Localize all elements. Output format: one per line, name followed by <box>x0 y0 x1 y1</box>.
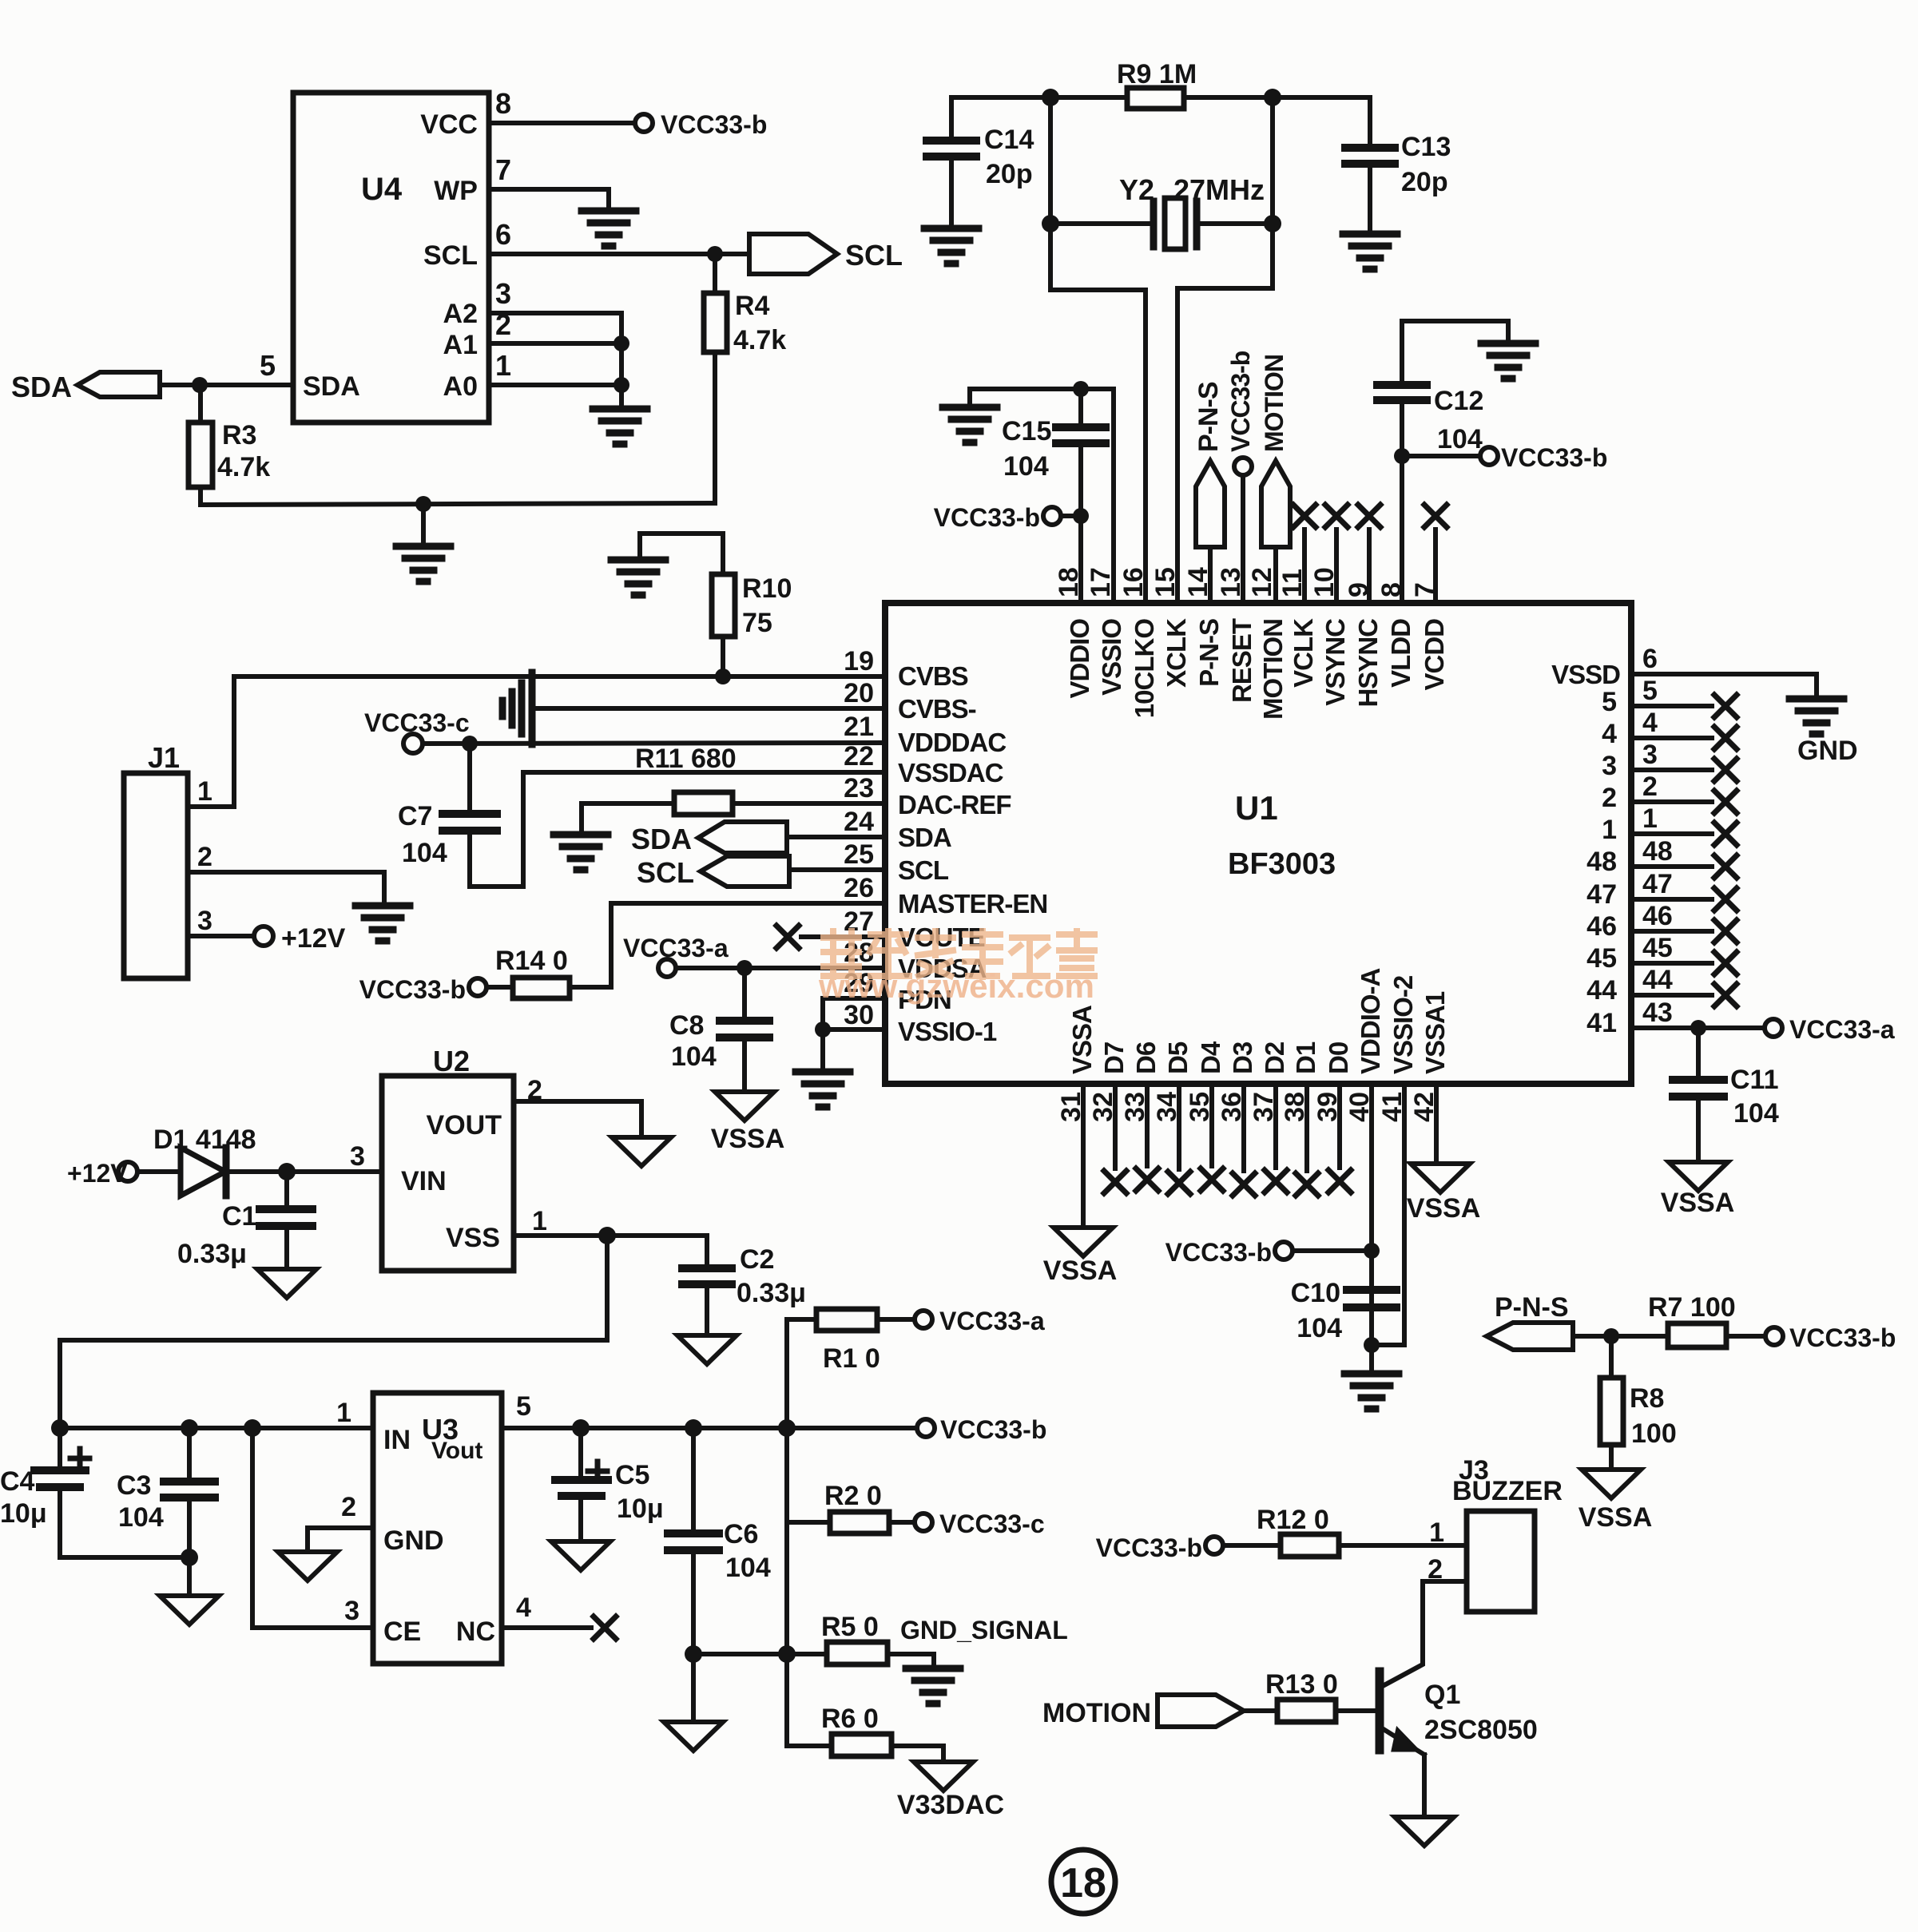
node right of R9 <box>1264 89 1281 106</box>
capacitor C11 <box>1696 1028 1701 1080</box>
svg-text:MASTER-EN: MASTER-EN <box>898 889 1047 918</box>
svg-text:C12: C12 <box>1434 386 1483 416</box>
svg-text:47: 47 <box>1586 879 1617 910</box>
svg-text:4: 4 <box>516 1593 531 1623</box>
crystal circuit top wire <box>951 95 1370 100</box>
wire J3 pin2 to Q1 collector <box>1381 1581 1467 1687</box>
resistor R5 0 <box>827 1642 888 1664</box>
svg-text:BF3003: BF3003 <box>1228 847 1336 881</box>
no-connect X bottom pins 32-39 <box>1115 1084 1340 1171</box>
svg-text:10: 10 <box>1309 567 1340 597</box>
svg-text:6: 6 <box>495 218 511 251</box>
wire crystal loop to pin16 <box>1050 290 1146 603</box>
resistor R4 <box>713 254 717 293</box>
VSSA triangle (R8) <box>1582 1470 1641 1498</box>
svg-text:R13 0: R13 0 <box>1265 1669 1338 1700</box>
svg-text:C8: C8 <box>669 1010 704 1041</box>
U1 bottom inside labels <box>1067 969 1450 1075</box>
svg-text:GND_SIGNAL: GND_SIGNAL <box>900 1616 1068 1644</box>
MOTION arrow (bottom) <box>1158 1695 1244 1727</box>
signal-ground sideways (CVBS-) <box>502 672 532 744</box>
svg-text:9: 9 <box>1344 582 1374 597</box>
ground (C12) <box>1481 343 1535 379</box>
svg-text:R11 680: R11 680 <box>635 744 737 774</box>
svg-text:SCL: SCL <box>637 856 694 889</box>
U1 bottom pin numbers <box>1056 1092 1439 1122</box>
svg-text:C2: C2 <box>740 1244 774 1275</box>
svg-text:VSSIO: VSSIO <box>1097 619 1126 696</box>
MOTION arrow into pin12 <box>1261 461 1290 547</box>
wire U1 pin42 VSSA1 <box>1434 1084 1439 1162</box>
svg-text:WP: WP <box>434 176 478 206</box>
wire U3 CE pin3 from IN rail <box>252 1428 373 1628</box>
svg-text:7: 7 <box>495 153 511 186</box>
wire U4 pin6 SCL <box>489 252 749 256</box>
svg-text:16: 16 <box>1118 567 1149 597</box>
svg-text:HSYNC: HSYNC <box>1353 619 1383 708</box>
svg-text:46: 46 <box>1586 911 1617 942</box>
svg-text:C13: C13 <box>1401 132 1451 162</box>
svg-text:A0: A0 <box>443 371 478 402</box>
ground (R11/DAC-REF) <box>554 835 608 870</box>
svg-text:VCC33-b: VCC33-b <box>1226 351 1255 452</box>
svg-text:VSSA: VSSA <box>1043 1256 1118 1286</box>
svg-text:A2: A2 <box>443 299 478 329</box>
VSSA triangle (C8) <box>715 1092 774 1121</box>
svg-text:D5: D5 <box>1163 1041 1193 1074</box>
svg-text:www.gzweix.com: www.gzweix.com <box>818 967 1094 1005</box>
svg-text:GND: GND <box>1797 736 1858 766</box>
VCC33-b terminal at C10 <box>1364 1243 1380 1259</box>
svg-text:IN: IN <box>383 1425 411 1455</box>
svg-text:5: 5 <box>1642 676 1658 706</box>
crystal Y2 27MHz <box>1048 97 1053 290</box>
wire U1 pin20 CVBS- <box>534 706 885 711</box>
svg-text:Vout: Vout <box>431 1438 482 1464</box>
svg-text:SDA: SDA <box>303 371 360 402</box>
node A0 <box>614 377 629 393</box>
svg-text:R14 0: R14 0 <box>495 946 568 976</box>
svg-text:VCDD: VCDD <box>1420 619 1449 691</box>
svg-text:C14: C14 <box>984 125 1034 155</box>
wire U3 GND pin2 to ground <box>308 1528 373 1550</box>
ground triangle (Q1 emitter) <box>1395 1817 1454 1846</box>
svg-text:VCC33-c: VCC33-c <box>939 1509 1045 1538</box>
ground triangle (C3/C4) <box>160 1596 219 1625</box>
svg-text:0.33μ: 0.33μ <box>177 1239 247 1269</box>
svg-text:SDA: SDA <box>631 823 692 855</box>
svg-text:P-N-S: P-N-S <box>1495 1292 1569 1323</box>
svg-text:C4: C4 <box>0 1466 35 1497</box>
capacitor C2 <box>705 1236 709 1268</box>
SDA arrow to pin24 <box>698 822 787 853</box>
svg-text:R3: R3 <box>222 420 256 450</box>
svg-text:U2: U2 <box>433 1045 470 1077</box>
ground (WP) <box>582 211 636 246</box>
wire U1 pin43 to VCC33-a <box>1631 1026 1764 1030</box>
svg-text:4.7k: 4.7k <box>217 452 270 482</box>
svg-text:14: 14 <box>1183 567 1213 597</box>
svg-text:6: 6 <box>1642 644 1658 674</box>
svg-text:10μ: 10μ <box>617 1494 664 1524</box>
wire crystal loop to pin15 <box>1177 288 1273 603</box>
capacitor C10 <box>1347 1286 1396 1294</box>
svg-text:C11: C11 <box>1730 1065 1779 1095</box>
wire U1 pin31 VSSA <box>1081 1084 1086 1226</box>
svg-text:MOTION: MOTION <box>1260 355 1289 452</box>
svg-text:3: 3 <box>197 906 212 936</box>
SDA input arrow <box>77 372 160 397</box>
svg-text:VDDIO: VDDIO <box>1065 619 1094 699</box>
svg-text:4: 4 <box>1602 719 1617 749</box>
no-connect X pin7 <box>1433 530 1438 603</box>
svg-text:1: 1 <box>336 1398 351 1428</box>
svg-text:MOTION: MOTION <box>1042 1698 1151 1728</box>
page number 18 <box>1051 1850 1115 1914</box>
node crystal left <box>1042 215 1059 232</box>
svg-text:VCC33-b: VCC33-b <box>934 503 1040 532</box>
svg-text:SCL: SCL <box>898 855 949 885</box>
svg-text:22: 22 <box>844 741 874 772</box>
wires U4 A2 A1 A0 <box>489 311 621 315</box>
ground (C10) <box>1344 1374 1399 1409</box>
wire C6 bottom junction to R5 <box>693 1652 827 1656</box>
resistor R7 100 <box>1668 1323 1726 1347</box>
svg-text:5: 5 <box>516 1391 531 1422</box>
ground (R10) <box>611 560 665 595</box>
svg-text:VSSIO-1: VSSIO-1 <box>898 1017 997 1046</box>
capacitor C4 10u electrolytic <box>58 1428 62 1470</box>
svg-text:U1: U1 <box>1235 789 1278 827</box>
svg-text:VSSA: VSSA <box>1407 1193 1481 1224</box>
svg-text:R6 0: R6 0 <box>821 1704 879 1734</box>
svg-text:R7 100: R7 100 <box>1648 1292 1736 1323</box>
svg-text:D6: D6 <box>1131 1041 1161 1074</box>
svg-text:104: 104 <box>402 838 447 868</box>
svg-text:VSSD: VSSD <box>1551 660 1620 689</box>
ground (C15) <box>943 407 997 442</box>
svg-text:104: 104 <box>725 1553 771 1583</box>
U1 top pin numbers <box>1054 567 1440 597</box>
IC U4 (EEPROM) <box>293 93 489 423</box>
VCC33-b terminal at pin13 <box>1234 458 1252 475</box>
wire J1 pin2 to ground <box>188 872 384 905</box>
svg-text:VCC33-b: VCC33-b <box>940 1415 1046 1444</box>
svg-text:U4: U4 <box>361 172 403 207</box>
wire C4 bottom to C3 bottom <box>60 1555 189 1560</box>
IN rail to U3 <box>60 1426 373 1430</box>
IC U1 BF3003 <box>885 603 1631 1084</box>
svg-text:VLDD: VLDD <box>1386 619 1416 688</box>
resistor R13 0 <box>1244 1708 1277 1713</box>
svg-text:VSSA: VSSA <box>711 1124 785 1154</box>
svg-text:104: 104 <box>1437 424 1483 454</box>
wire U2 VSS pin1 <box>514 1233 707 1238</box>
svg-text:VCC33-b: VCC33-b <box>1165 1238 1272 1267</box>
svg-text:4: 4 <box>1642 708 1658 738</box>
P-N-S arrow (bottom right) <box>1487 1323 1573 1350</box>
wire J1 pin3 to +12V <box>188 934 254 938</box>
svg-text:R2 0: R2 0 <box>824 1481 882 1511</box>
svg-text:Y2: Y2 <box>1119 173 1154 206</box>
svg-text:15: 15 <box>1150 567 1181 597</box>
resistor R2 0 <box>787 1520 830 1525</box>
no-connect X U3 NC pin4 <box>502 1625 591 1630</box>
resistor R9 <box>1127 88 1184 109</box>
wire R3/R4 common ground rail <box>201 503 715 505</box>
connector J1 <box>124 773 188 978</box>
svg-text:20p: 20p <box>986 159 1033 189</box>
node SDA junction <box>192 377 208 393</box>
svg-text:CVBS-: CVBS- <box>898 694 976 724</box>
svg-text:10μ: 10μ <box>0 1498 47 1529</box>
connector J3 BUZZER <box>1467 1511 1535 1612</box>
svg-text:A1: A1 <box>443 330 478 360</box>
VCC33-b terminal (R12) <box>1205 1537 1223 1554</box>
svg-text:D0: D0 <box>1324 1042 1353 1074</box>
resistor R11 680 on pin23 <box>582 801 674 806</box>
svg-text:R10: R10 <box>742 573 792 604</box>
svg-text:R8: R8 <box>1630 1383 1664 1414</box>
svg-text:R1 0: R1 0 <box>823 1343 880 1374</box>
VCC33-b terminal at pin18 <box>1043 507 1061 525</box>
no-connect X pin9 <box>1367 530 1372 603</box>
svg-text:26: 26 <box>844 873 874 903</box>
regulator U2 <box>382 1076 514 1271</box>
ground (R5) <box>906 1668 960 1704</box>
svg-text:8: 8 <box>1376 582 1407 597</box>
svg-text:20: 20 <box>844 678 874 708</box>
svg-text:13: 13 <box>1216 567 1246 597</box>
capacitor C12 <box>1402 321 1508 385</box>
wire C15 top to ground <box>970 389 1081 407</box>
svg-text:VSSDAC: VSSDAC <box>898 758 1003 787</box>
svg-text:MOTION: MOTION <box>1258 619 1288 720</box>
+12V terminal (regulator input) <box>118 1162 137 1181</box>
svg-text:1: 1 <box>495 349 511 382</box>
svg-text:CE: CE <box>383 1617 421 1647</box>
VSSA triangle (C11) <box>1669 1162 1728 1191</box>
wire U4 pin7 WP <box>489 189 609 210</box>
svg-text:C10: C10 <box>1291 1278 1340 1308</box>
resistor R12 0 <box>1223 1543 1281 1548</box>
svg-text:VCC33-b: VCC33-b <box>359 975 466 1004</box>
wire U1 pin41 VSSIO-2 down <box>1372 1084 1404 1345</box>
ground (rail) <box>396 546 451 581</box>
svg-text:104: 104 <box>118 1502 164 1533</box>
SCL arrow to pin25 <box>701 856 789 887</box>
ground (pin30) <box>796 1072 850 1107</box>
svg-text:25: 25 <box>844 839 874 870</box>
capacitor C1 <box>284 1172 289 1209</box>
svg-text:CVBS: CVBS <box>898 661 968 691</box>
no-connect X pin27 VOUTE <box>801 934 885 939</box>
wire U1 pin19 CVBS to J1 pin1 <box>188 676 885 807</box>
svg-text:+12V: +12V <box>281 923 346 954</box>
svg-text:D1: D1 <box>1291 1041 1320 1074</box>
svg-text:VCC: VCC <box>420 109 478 140</box>
svg-text:V33DAC: V33DAC <box>897 1790 1004 1820</box>
svg-text:C5: C5 <box>615 1460 649 1490</box>
svg-text:Q1: Q1 <box>1424 1680 1460 1710</box>
svg-text:46: 46 <box>1642 901 1673 931</box>
svg-text:100: 100 <box>1631 1418 1677 1449</box>
wire U4 pin8 to VCC33-b <box>489 121 634 125</box>
ground triangle V33DAC <box>914 1762 973 1791</box>
svg-text:VOUT: VOUT <box>427 1110 502 1141</box>
VCC33-a terminal pin28 <box>658 959 676 977</box>
no-connect X right pins 5,4,3,2,1,48,47,46,45,44 <box>1631 706 1712 995</box>
svg-text:D1 4148: D1 4148 <box>153 1125 256 1155</box>
svg-text:VCLK: VCLK <box>1289 618 1318 688</box>
svg-text:17: 17 <box>1086 567 1116 597</box>
svg-text:1: 1 <box>1602 815 1617 845</box>
wire SDA to U4 pin5 <box>160 383 293 387</box>
svg-text:VSYNC: VSYNC <box>1320 619 1350 706</box>
svg-text:VSSA: VSSA <box>1661 1188 1735 1218</box>
VCC33-c terminal pin21 <box>403 734 423 753</box>
svg-text:1: 1 <box>197 776 212 807</box>
svg-text:VSSA: VSSA <box>1067 1006 1097 1074</box>
svg-text:D2: D2 <box>1260 1041 1289 1074</box>
svg-text:VDDIO-A: VDDIO-A <box>1356 969 1385 1075</box>
no-connect X pin10 <box>1334 530 1339 603</box>
svg-text:BUZZER: BUZZER <box>1452 1476 1563 1506</box>
regulator U3 <box>373 1393 502 1664</box>
capacitor C6 <box>691 1428 696 1533</box>
node SCL junction <box>707 246 723 262</box>
svg-text:44: 44 <box>1586 975 1617 1006</box>
VCC33-b terminal (Vout rail) <box>917 1419 935 1437</box>
svg-text:48: 48 <box>1586 847 1617 877</box>
resistor R10 <box>715 668 731 684</box>
VCC33-b terminal at pin8/C12 <box>1394 448 1410 464</box>
diode D1 4148 <box>137 1169 181 1174</box>
svg-text:C7: C7 <box>398 801 432 831</box>
svg-text:VIN: VIN <box>401 1166 447 1196</box>
svg-text:D4: D4 <box>1196 1041 1225 1074</box>
U1 top pin labels <box>1065 618 1449 720</box>
capacitor C8 <box>742 968 747 1021</box>
ground GND <box>1789 699 1844 734</box>
svg-text:104: 104 <box>1003 451 1049 482</box>
svg-text:VCC33-a: VCC33-a <box>1789 1015 1895 1044</box>
ground (A0) <box>593 409 647 444</box>
svg-text:21: 21 <box>844 712 874 742</box>
svg-text:0.33μ: 0.33μ <box>737 1278 806 1308</box>
wire U1 pin6 VSSD to GND <box>1631 674 1817 698</box>
svg-text:VSSA: VSSA <box>1578 1502 1653 1533</box>
svg-text:3: 3 <box>1602 751 1617 781</box>
resistor R6 0 <box>832 1734 891 1756</box>
SCL output arrow <box>749 234 837 274</box>
svg-text:VSSIO-2: VSSIO-2 <box>1388 975 1418 1074</box>
ground triangle (C2) <box>677 1335 737 1364</box>
svg-text:VSSA1: VSSA1 <box>1420 991 1450 1074</box>
resistor R3 <box>189 423 212 487</box>
svg-text:24: 24 <box>844 807 874 837</box>
svg-text:SCL: SCL <box>845 239 903 272</box>
U3 Vout rail <box>502 1426 916 1430</box>
wire U1 pin26 MASTER-EN to R14 <box>570 903 885 987</box>
svg-text:41: 41 <box>1586 1008 1617 1038</box>
svg-text:RESET: RESET <box>1227 618 1257 703</box>
capacitor C13 <box>1368 97 1372 148</box>
svg-text:2: 2 <box>1642 772 1658 802</box>
svg-text:3: 3 <box>1642 740 1658 770</box>
svg-text:D3: D3 <box>1228 1041 1257 1074</box>
node rail junction <box>415 496 431 512</box>
svg-text:J1: J1 <box>148 741 180 774</box>
svg-text:43: 43 <box>1642 998 1673 1028</box>
svg-text:12: 12 <box>1247 567 1277 597</box>
wire C15 node to pin17 <box>1081 389 1114 603</box>
wire U1 pin30 VSSIO-1 <box>823 1027 885 1032</box>
wire U1 pin29 PDN <box>823 998 885 1029</box>
resistor R14 0 <box>513 978 570 998</box>
wire U1 pin40 VDDIO-A down <box>1369 1084 1374 1345</box>
svg-text:19: 19 <box>844 646 874 676</box>
ground triangle (C1) <box>257 1269 316 1298</box>
svg-text:SDA: SDA <box>11 371 72 403</box>
svg-text:VCC33-b: VCC33-b <box>1501 443 1607 472</box>
svg-text:VCC33-a: VCC33-a <box>939 1307 1045 1335</box>
svg-text:C3: C3 <box>117 1470 151 1501</box>
svg-text:P-N-S: P-N-S <box>1193 382 1224 452</box>
svg-text:C6: C6 <box>724 1519 758 1549</box>
svg-text:2SC8050: 2SC8050 <box>1424 1715 1538 1745</box>
U1 left pin numbers <box>844 646 874 1030</box>
watermark <box>818 931 1094 1005</box>
svg-text:R9 1M: R9 1M <box>1117 59 1197 89</box>
svg-text:GND: GND <box>383 1525 444 1556</box>
svg-text:11: 11 <box>1277 569 1308 597</box>
ground (C13) <box>1343 234 1397 269</box>
node C15 top <box>1073 381 1089 397</box>
svg-text:2: 2 <box>1602 783 1617 813</box>
svg-text:DAC-REF: DAC-REF <box>898 790 1011 819</box>
svg-text:45: 45 <box>1586 943 1617 974</box>
svg-text:C1: C1 <box>222 1201 256 1232</box>
svg-text:5: 5 <box>260 349 276 382</box>
wire C7 bottom to U1 pin22 VSSDAC <box>470 772 885 887</box>
svg-text:2: 2 <box>341 1492 356 1522</box>
ground (C14) <box>924 228 979 264</box>
svg-text:104: 104 <box>1297 1313 1342 1343</box>
svg-text:20p: 20p <box>1401 167 1448 197</box>
P-N-S arrow into pin14 <box>1196 461 1225 547</box>
svg-text:VCC33-b: VCC33-b <box>1789 1323 1896 1352</box>
svg-text:23: 23 <box>844 773 874 803</box>
svg-text:XCLK: XCLK <box>1162 618 1191 688</box>
node crystal right <box>1264 215 1281 232</box>
node A1 <box>614 335 629 351</box>
U1 right pin outside numbers <box>1642 644 1673 1028</box>
wire VSS rail down-left to U3 IN rail <box>60 1236 607 1428</box>
svg-text:SDA: SDA <box>898 823 951 852</box>
svg-text:1: 1 <box>532 1206 547 1236</box>
svg-text:18: 18 <box>1054 567 1084 597</box>
svg-text:C15: C15 <box>1002 416 1051 446</box>
svg-text:R4: R4 <box>735 291 770 321</box>
svg-text:VCC33-b: VCC33-b <box>661 110 767 139</box>
node D1/C1 <box>278 1163 296 1180</box>
svg-text:VCC33-b: VCC33-b <box>1096 1533 1202 1562</box>
svg-text:7: 7 <box>1410 582 1440 597</box>
svg-text:104: 104 <box>1733 1098 1779 1129</box>
capacitor C14 <box>949 97 954 141</box>
U1 left pin labels <box>898 661 1047 1046</box>
